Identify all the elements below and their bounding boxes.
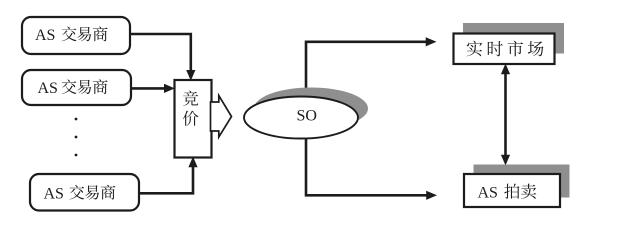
wire SO top to real-time market box (up then right, arrowhead right) bbox=[306, 37, 437, 90]
SO ellipse bbox=[244, 97, 358, 139]
svg-text:AS: AS bbox=[35, 27, 55, 44]
rounded box AS trader 1 bbox=[22, 17, 130, 54]
vertical ellipsis dots between trader boxes bbox=[75, 118, 78, 157]
SO ellipse shadow bbox=[254, 88, 368, 130]
svg-text:AS: AS bbox=[44, 185, 64, 202]
block arrow from bidding box to SO bbox=[211, 96, 232, 138]
wire box1 to bidding box (right then down, arrowhead down) bbox=[130, 34, 195, 81]
wire SO bottom to AS auction box (down then right, arrowhead right) bbox=[306, 138, 437, 200]
svg-text:AS: AS bbox=[478, 185, 498, 202]
rounded box AS trader 2 bbox=[22, 70, 131, 105]
AS auction box shadow bbox=[474, 165, 570, 198]
AS auction box bbox=[464, 174, 560, 207]
real-time market box shadow bbox=[463, 23, 564, 54]
real-time market box bbox=[454, 34, 555, 65]
bidding box (jingjia) bbox=[175, 80, 212, 158]
svg-text:SO: SO bbox=[297, 108, 317, 125]
wire box3 to bidding box (right then up, arrowhead up) bbox=[139, 157, 198, 194]
svg-text:AS: AS bbox=[38, 80, 58, 97]
double-headed arrow between real-time market and AS auction bbox=[501, 64, 510, 166]
rounded box AS trader 3 bbox=[30, 174, 139, 211]
wire box2 to bidding box (arrowhead right) bbox=[131, 84, 175, 93]
